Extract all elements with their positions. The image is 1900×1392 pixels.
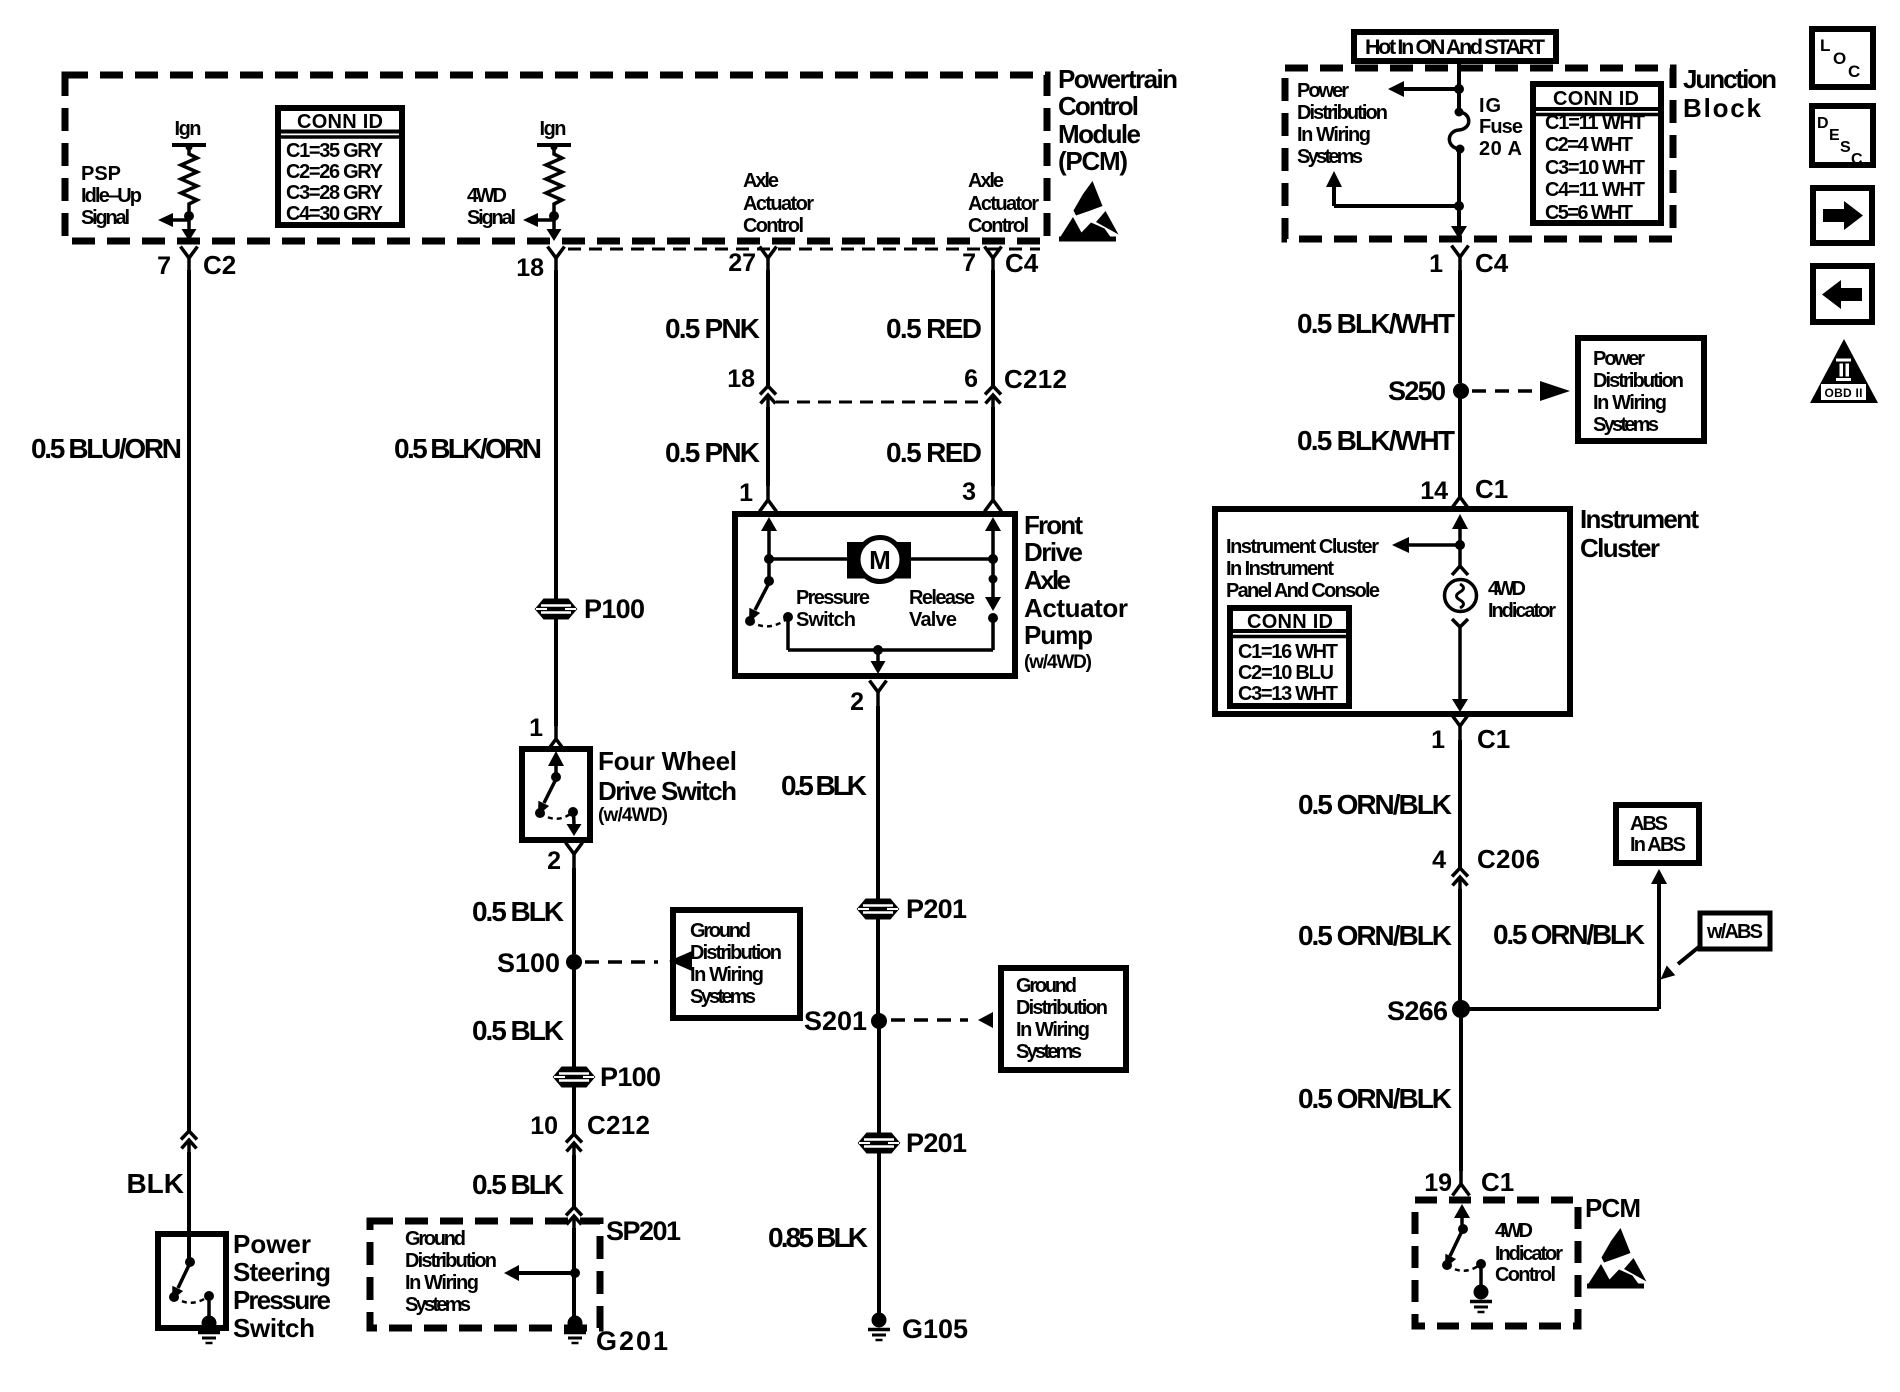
switch dashed throw arc (PSP switch) bbox=[174, 1296, 209, 1303]
PCM dashed box (bottom right) bbox=[1415, 1200, 1578, 1326]
label Axle Actuator Control (pin 27) bbox=[743, 170, 814, 237]
svg-text:SP201: SP201 bbox=[606, 1216, 681, 1246]
svg-text:Steering: Steering bbox=[233, 1257, 331, 1287]
svg-text:0.5 ORN/BLK: 0.5 ORN/BLK bbox=[1298, 789, 1452, 820]
label IG Fuse 20 A bbox=[1479, 95, 1523, 160]
label Front Drive Axle Actuator Pump (w/4WD) bbox=[1024, 510, 1128, 673]
svg-text:Ign: Ign bbox=[175, 118, 202, 140]
switch dashed throw arc (FWD switch) bbox=[540, 812, 573, 819]
wire 0.5 ORN/BLK to S266 bbox=[1458, 889, 1462, 1001]
svg-text:S100: S100 bbox=[497, 948, 560, 978]
svg-text:Control: Control bbox=[1495, 1264, 1556, 1286]
svg-text:Actuator: Actuator bbox=[968, 193, 1039, 215]
svg-text:0.5 RED: 0.5 RED bbox=[886, 437, 982, 468]
wire 0.5 BLK to SP201 bbox=[572, 1155, 576, 1207]
svg-text:4WD: 4WD bbox=[467, 185, 507, 207]
svg-text:M: M bbox=[869, 545, 891, 575]
arrow down to pin 1 C4 bbox=[1451, 226, 1467, 239]
wire 0.5 BLK/ORN from PCM pin 18 down bbox=[554, 270, 558, 600]
CONN ID table (instrument cluster) bbox=[1230, 608, 1349, 706]
svg-text:0.5 RED: 0.5 RED bbox=[886, 313, 982, 344]
svg-text:4WD: 4WD bbox=[1488, 578, 1526, 600]
svg-text:CONN ID: CONN ID bbox=[297, 111, 383, 133]
connector pin 18 (PCM) bbox=[548, 247, 565, 273]
ESD sensitivity symbol (PCM bottom) bbox=[1587, 1228, 1647, 1289]
svg-text:CONN ID: CONN ID bbox=[1553, 88, 1639, 110]
motor M (pump) bbox=[847, 542, 911, 579]
svg-text:Pump: Pump bbox=[1024, 620, 1093, 650]
label Four Wheel Drive Switch (w/4WD) bbox=[598, 746, 737, 826]
pressure switch arm bbox=[755, 583, 769, 610]
svg-text:1: 1 bbox=[1429, 250, 1443, 278]
dashed reference line to Ground Distribution (S100) bbox=[585, 960, 658, 964]
Junction Block dashed box bbox=[1285, 68, 1673, 239]
connector pin 14 C1 (instrument cluster) bbox=[1452, 483, 1469, 509]
switch dashed throw arc (4WD indicator control) bbox=[1447, 1264, 1481, 1271]
label Instrument Cluster (outside) bbox=[1580, 504, 1699, 563]
svg-text:C3=28 GRY: C3=28 GRY bbox=[286, 182, 384, 204]
svg-text:Power: Power bbox=[1297, 80, 1349, 102]
svg-text:19: 19 bbox=[1424, 1169, 1452, 1197]
resistor PSP idle-up (pull-up to Ign) bbox=[158, 144, 206, 242]
svg-text:C212: C212 bbox=[587, 1110, 650, 1140]
svg-text:0.5 ORN/BLK: 0.5 ORN/BLK bbox=[1298, 1083, 1452, 1114]
svg-text:0.5 BLK: 0.5 BLK bbox=[472, 1169, 564, 1200]
svg-text:C4: C4 bbox=[1475, 248, 1509, 278]
svg-text:Four Wheel: Four Wheel bbox=[598, 746, 737, 776]
connector pin 3 (pump) bbox=[985, 486, 1002, 512]
svg-text:Control: Control bbox=[968, 215, 1029, 237]
connector pin 19 C1 (PCM) bbox=[1453, 1170, 1470, 1196]
svg-text:C2: C2 bbox=[203, 250, 236, 280]
svg-text:C1=16 WHT: C1=16 WHT bbox=[1238, 641, 1338, 663]
svg-text:L: L bbox=[1820, 36, 1830, 55]
svg-text:Pressure: Pressure bbox=[796, 587, 870, 609]
svg-text:Axle: Axle bbox=[1024, 565, 1071, 595]
pass-through grommet P100 (second) bbox=[554, 1068, 594, 1087]
svg-text:Distribution: Distribution bbox=[1593, 370, 1684, 392]
svg-text:Valve: Valve bbox=[909, 609, 957, 631]
svg-text:0.5 BLK/ORN: 0.5 BLK/ORN bbox=[394, 433, 542, 464]
wire BLK to Power Steering Pressure Switch bbox=[187, 1152, 191, 1261]
svg-text:Systems: Systems bbox=[405, 1294, 471, 1316]
ground stud (PSP switch) bbox=[198, 1316, 220, 1344]
svg-text:P201: P201 bbox=[906, 1128, 967, 1158]
wire lamp to cluster pin 1 bbox=[1458, 627, 1462, 701]
switch arm arrow up (FWD switch) bbox=[548, 751, 564, 766]
label Instrument Cluster In Instrument Panel And Console bbox=[1226, 536, 1380, 602]
wire from Hot box into junction block bbox=[1457, 61, 1461, 112]
connector 6 C212 bbox=[985, 386, 1001, 407]
wire to splice S201 bbox=[876, 918, 880, 1014]
svg-text:Control: Control bbox=[1058, 91, 1139, 121]
Power Distribution In Wiring Systems box (S250) bbox=[1578, 338, 1704, 441]
reference arrow left (power distribution feed) bbox=[1404, 87, 1459, 91]
svg-text:C: C bbox=[1851, 151, 1863, 168]
connector pin 1 C1 (below cluster) bbox=[1452, 715, 1469, 741]
dashed connector line C212 bbox=[776, 401, 985, 404]
svg-text:Indicator: Indicator bbox=[1495, 1243, 1563, 1265]
Hot In ON And START box bbox=[1354, 32, 1556, 61]
ESD sensitivity symbol (PCM) bbox=[1059, 181, 1119, 242]
svg-text:Systems: Systems bbox=[1593, 414, 1659, 436]
svg-text:In Wiring: In Wiring bbox=[1016, 1019, 1090, 1041]
svg-text:Power: Power bbox=[1593, 348, 1645, 370]
svg-text:Control: Control bbox=[743, 215, 804, 237]
svg-text:Ground: Ground bbox=[1016, 975, 1077, 997]
wire S201 to P201 bbox=[877, 1021, 881, 1133]
connector 18 C212 bbox=[760, 386, 776, 407]
ground G105 bbox=[868, 1313, 890, 1341]
svg-text:IG: IG bbox=[1479, 95, 1501, 117]
Ground Distribution In Wiring Systems box (S100) bbox=[673, 910, 800, 1018]
svg-text:P201: P201 bbox=[906, 894, 967, 924]
reference arrow inside SP201 box bbox=[519, 1271, 575, 1275]
svg-text:S: S bbox=[1840, 139, 1851, 156]
pressure switch fixed contact bbox=[745, 616, 755, 626]
svg-text:C2=4 WHT: C2=4 WHT bbox=[1545, 134, 1633, 156]
node feed junction bbox=[1454, 84, 1464, 94]
svg-text:S250: S250 bbox=[1388, 376, 1446, 406]
label Release Valve bbox=[909, 587, 975, 631]
label 4WD Indicator Control bbox=[1495, 1220, 1563, 1286]
svg-text:0.5 BLK/WHT: 0.5 BLK/WHT bbox=[1297, 425, 1455, 456]
svg-text:C1=35 GRY: C1=35 GRY bbox=[286, 140, 384, 162]
svg-text:CONN ID: CONN ID bbox=[1247, 611, 1333, 633]
Power Steering Pressure Switch box bbox=[158, 1234, 226, 1328]
connector pin 1 (pump) bbox=[760, 486, 777, 512]
svg-text:1: 1 bbox=[1431, 726, 1445, 754]
Four Wheel Drive Switch box bbox=[522, 749, 590, 840]
svg-text:C212: C212 bbox=[1004, 364, 1067, 394]
svg-text:Systems: Systems bbox=[1297, 146, 1363, 168]
svg-text:0.5 PNK: 0.5 PNK bbox=[665, 437, 760, 468]
svg-text:C4: C4 bbox=[1005, 248, 1039, 278]
LOC legend icon bbox=[1812, 29, 1873, 87]
svg-text:In Instrument: In Instrument bbox=[1226, 558, 1334, 580]
switch contact pivot (PSP switch) bbox=[185, 1257, 195, 1267]
switch arm (4WD indicator control) bbox=[1450, 1231, 1462, 1256]
label Axle Actuator Control (pin 7 C4) bbox=[968, 170, 1039, 237]
wire 0.5 BLK/WHT upper bbox=[1458, 270, 1462, 383]
svg-text:Ign: Ign bbox=[540, 118, 567, 140]
svg-text:Drive Switch: Drive Switch bbox=[598, 776, 737, 806]
label PSP Idle-Up Signal bbox=[81, 163, 142, 229]
svg-text:Distribution: Distribution bbox=[1016, 997, 1108, 1019]
svg-text:OBD II: OBD II bbox=[1825, 386, 1863, 400]
svg-text:0.85 BLK: 0.85 BLK bbox=[768, 1222, 868, 1253]
wire 0.5 ORN/BLK first bbox=[1458, 740, 1462, 868]
svg-text:ABS: ABS bbox=[1630, 813, 1668, 835]
splice S201 bbox=[871, 1013, 887, 1029]
svg-text:Signal: Signal bbox=[81, 207, 130, 229]
svg-text:Block: Block bbox=[1683, 93, 1762, 123]
cluster feed arrow up bbox=[1452, 514, 1468, 529]
Ground Distribution In Wiring Systems box (S201) bbox=[1001, 968, 1126, 1070]
svg-text:(w/4WD): (w/4WD) bbox=[598, 805, 668, 826]
svg-text:w/ABS: w/ABS bbox=[1706, 921, 1763, 943]
splice S266 bbox=[1452, 1000, 1470, 1018]
svg-text:1: 1 bbox=[529, 714, 543, 742]
reference arrow left (instrument cluster feed) bbox=[1409, 543, 1460, 547]
svg-text:18: 18 bbox=[727, 365, 755, 393]
svg-text:G105: G105 bbox=[902, 1314, 968, 1344]
svg-text:2: 2 bbox=[850, 688, 864, 716]
svg-text:P100: P100 bbox=[584, 594, 645, 624]
svg-text:Junction: Junction bbox=[1683, 64, 1777, 94]
ground G201 bbox=[564, 1316, 586, 1344]
svg-text:C3=10 WHT: C3=10 WHT bbox=[1545, 157, 1645, 179]
wire 0.85 BLK to G105 bbox=[877, 1152, 881, 1314]
wire 0.5 RED to pump pin 3 bbox=[991, 407, 995, 486]
svg-text:0.5 BLU/ORN: 0.5 BLU/ORN bbox=[31, 433, 182, 464]
label 4WD Indicator bbox=[1488, 578, 1556, 622]
svg-text:S266: S266 bbox=[1387, 996, 1448, 1026]
connector pin 1 C4 (junction block) bbox=[1452, 246, 1469, 272]
svg-text:D: D bbox=[1817, 115, 1829, 132]
wire 0.5 RED from PCM pin 7 C4 bbox=[991, 270, 995, 386]
svg-text:Idle–Up: Idle–Up bbox=[81, 185, 142, 207]
switch contact to ground (4WD indicator control) bbox=[1476, 1259, 1486, 1269]
label Powertrain Control Module (PCM) bbox=[1058, 64, 1178, 176]
svg-text:(PCM): (PCM) bbox=[1058, 146, 1128, 176]
label Power Distribution In Wiring Systems (junction block) bbox=[1297, 80, 1388, 168]
wire junction to motor bbox=[769, 557, 849, 561]
svg-text:Switch: Switch bbox=[233, 1313, 315, 1343]
4WD Indicator lamp bbox=[1445, 580, 1477, 612]
Ground Distribution dashed box (SP201) bbox=[370, 1221, 600, 1328]
svg-text:Release: Release bbox=[909, 587, 975, 609]
resistor 4WD signal (pull-up to Ign) bbox=[523, 144, 571, 242]
Front Drive Axle Actuator Pump box bbox=[735, 514, 1015, 676]
dashed reference line to Ground Distribution (S201) bbox=[891, 1018, 968, 1022]
svg-text:7: 7 bbox=[157, 252, 171, 280]
label Pressure Switch bbox=[796, 587, 870, 631]
svg-text:BLK: BLK bbox=[126, 1168, 184, 1199]
svg-text:Distribution: Distribution bbox=[690, 942, 782, 964]
right arrow legend icon bbox=[1813, 188, 1872, 243]
reference arrow up-left (power distribution feed 2) bbox=[1334, 204, 1459, 208]
svg-text:In Wiring: In Wiring bbox=[405, 1272, 479, 1294]
pump pin 1 internal arrow bbox=[761, 517, 777, 531]
svg-text:Front: Front bbox=[1024, 510, 1083, 540]
svg-text:2: 2 bbox=[547, 847, 561, 875]
svg-text:C4=30 GRY: C4=30 GRY bbox=[286, 203, 384, 225]
svg-text:Powertrain: Powertrain bbox=[1058, 64, 1178, 94]
svg-text:Cluster: Cluster bbox=[1580, 533, 1660, 563]
svg-text:Actuator: Actuator bbox=[1024, 593, 1128, 623]
wire 0.5 BLK below S100 bbox=[572, 962, 576, 1068]
wire motor to right junction bbox=[911, 557, 993, 561]
svg-text:0.5 PNK: 0.5 PNK bbox=[665, 313, 760, 344]
wire 0.5 BLK from FWD switch pin 2 bbox=[572, 868, 576, 954]
svg-text:10: 10 bbox=[530, 1112, 558, 1140]
svg-text:C: C bbox=[1848, 62, 1860, 81]
svg-text:18: 18 bbox=[516, 254, 544, 282]
svg-text:Distribution: Distribution bbox=[405, 1250, 497, 1272]
pump bottom bus wire bbox=[788, 648, 993, 652]
svg-text:0.5 BLK: 0.5 BLK bbox=[472, 896, 564, 927]
pump pin 3 internal arrow bbox=[985, 517, 1001, 531]
svg-text:Instrument: Instrument bbox=[1580, 504, 1699, 534]
svg-text:Hot In ON And START: Hot In ON And START bbox=[1365, 35, 1545, 59]
svg-text:C1: C1 bbox=[1477, 724, 1510, 754]
splice S250 bbox=[1453, 383, 1469, 399]
svg-text:Axle: Axle bbox=[743, 170, 779, 192]
pass-through grommet P201 (first) bbox=[858, 900, 898, 919]
svg-text:Ground: Ground bbox=[690, 920, 751, 942]
switch arm (PSP switch) bbox=[178, 1263, 190, 1288]
PCM (Powertrain Control Module) dashed box bbox=[65, 75, 1047, 241]
node pump right junction bbox=[988, 554, 998, 564]
svg-text:P100: P100 bbox=[600, 1062, 661, 1092]
label Power Steering Pressure Switch bbox=[233, 1229, 331, 1343]
wire 0.5 BLK from pump pin 2 bbox=[876, 706, 880, 899]
svg-text:4WD: 4WD bbox=[1495, 1220, 1533, 1242]
connector 4 C206 bbox=[1452, 868, 1468, 889]
svg-text:Panel And Console: Panel And Console bbox=[1226, 580, 1380, 602]
svg-text:C5=6 WHT: C5=6 WHT bbox=[1545, 202, 1633, 224]
svg-text:Fuse: Fuse bbox=[1479, 116, 1523, 138]
svg-text:C4=11 WHT: C4=11 WHT bbox=[1545, 179, 1645, 201]
svg-text:Systems: Systems bbox=[690, 986, 756, 1008]
svg-text:Indicator: Indicator bbox=[1488, 600, 1556, 622]
svg-text:In ABS: In ABS bbox=[1630, 834, 1686, 856]
svg-text:In Wiring: In Wiring bbox=[1297, 124, 1371, 146]
svg-text:27: 27 bbox=[728, 249, 756, 277]
switch fixed contact left (PSP switch) bbox=[169, 1292, 179, 1302]
node lower feed junction bbox=[1454, 201, 1464, 211]
wire 0.5 PNK from PCM pin 27 bbox=[766, 270, 770, 386]
fuse IG Fuse 20 A bbox=[1455, 108, 1464, 117]
svg-text:PCM: PCM bbox=[1585, 1193, 1641, 1223]
splice SP201 connector break bbox=[566, 1207, 582, 1228]
svg-text:C1=11 WHT: C1=11 WHT bbox=[1545, 112, 1645, 134]
connector pin 1 (Four Wheel Drive Switch) bbox=[548, 725, 565, 751]
wire 0.5 PNK to pump pin 1 bbox=[766, 407, 770, 486]
wire 0.5 BLU/ORN from PCM pin 7 C2 down bbox=[187, 270, 191, 1131]
svg-text:0.5 ORN/BLK: 0.5 ORN/BLK bbox=[1493, 919, 1645, 950]
svg-text:0.5 BLK: 0.5 BLK bbox=[781, 770, 867, 801]
wire to Four Wheel Drive Switch pin 1 bbox=[554, 618, 558, 726]
lamp socket upper flare bbox=[1452, 566, 1468, 575]
svg-text:Instrument Cluster: Instrument Cluster bbox=[1226, 536, 1379, 558]
svg-text:O: O bbox=[1833, 49, 1846, 68]
svg-text:C1: C1 bbox=[1481, 1167, 1514, 1197]
svg-text:C2=10 BLU: C2=10 BLU bbox=[1238, 662, 1334, 684]
dashed reference arrow to Power Distribution (S250) bbox=[1472, 389, 1536, 393]
svg-text:Ground: Ground bbox=[405, 1228, 466, 1250]
switch contact right (FWD switch) bbox=[568, 807, 578, 817]
CONN ID table (PCM) bbox=[278, 108, 402, 225]
node cluster junction bbox=[1455, 540, 1465, 550]
switch arm (FWD switch) bbox=[544, 779, 556, 803]
4WD indicator control switch arrow bbox=[1454, 1204, 1470, 1218]
ground stud (4WD indicator control) bbox=[1470, 1285, 1492, 1313]
left arrow legend icon bbox=[1813, 266, 1872, 322]
pump pin 2 internal arrow bbox=[876, 650, 880, 663]
svg-text:Axle: Axle bbox=[968, 170, 1004, 192]
Instrument Cluster box bbox=[1215, 509, 1570, 714]
svg-text:C206: C206 bbox=[1477, 844, 1540, 874]
pressure switch output contact bbox=[783, 612, 793, 622]
in-line connector break (BLK wire) bbox=[181, 1131, 197, 1152]
svg-text:(w/4WD): (w/4WD) bbox=[1024, 652, 1092, 673]
svg-text:C3=13 WHT: C3=13 WHT bbox=[1238, 683, 1338, 705]
svg-text:Systems: Systems bbox=[1016, 1041, 1082, 1063]
svg-text:PSP: PSP bbox=[81, 163, 121, 185]
lamp socket lower flare bbox=[1452, 619, 1468, 627]
svg-text:C1: C1 bbox=[1475, 474, 1508, 504]
CONN ID table (junction block) bbox=[1533, 84, 1661, 224]
OBD II legend icon bbox=[1810, 339, 1878, 403]
wire to connector C212 pin 10 bbox=[572, 1086, 576, 1134]
ABS In ABS box bbox=[1616, 805, 1699, 863]
pressure switch dashed throw arc bbox=[750, 618, 788, 626]
wire 0.5 ORN/BLK to PCM pin 19 bbox=[1459, 1009, 1463, 1171]
svg-text:Actuator: Actuator bbox=[743, 193, 814, 215]
node pump left junction bbox=[764, 554, 774, 564]
label 4WD Signal bbox=[467, 185, 516, 229]
label Junction Block bbox=[1683, 64, 1777, 123]
svg-text:0.5 ORN/BLK: 0.5 ORN/BLK bbox=[1298, 920, 1452, 951]
svg-text:Distribution: Distribution bbox=[1297, 102, 1388, 124]
wire w/ABS branch to ABS bbox=[1461, 1007, 1659, 1011]
svg-text:C2=26 GRY: C2=26 GRY bbox=[286, 161, 384, 183]
pass-through grommet P100 bbox=[536, 600, 576, 619]
w/ABS pointer arrow bbox=[1678, 946, 1700, 964]
svg-text:20 A: 20 A bbox=[1479, 138, 1522, 160]
svg-text:14: 14 bbox=[1420, 477, 1448, 505]
wire SP201 to G201 bbox=[572, 1228, 576, 1316]
svg-text:E: E bbox=[1829, 127, 1840, 144]
svg-text:3: 3 bbox=[962, 478, 976, 506]
pass-through grommet P201 (second) bbox=[859, 1134, 899, 1153]
DESC legend icon bbox=[1812, 106, 1873, 168]
svg-text:1: 1 bbox=[739, 479, 753, 507]
switch contact right to ground (PSP switch) bbox=[204, 1291, 214, 1301]
connector 10 C212 bbox=[566, 1134, 582, 1155]
switch fixed contact (4WD indicator control) bbox=[1442, 1260, 1452, 1270]
svg-text:4: 4 bbox=[1432, 846, 1446, 874]
connector pin 7 C4 (PCM) bbox=[985, 247, 1002, 273]
svg-text:0.5 BLK: 0.5 BLK bbox=[472, 1015, 564, 1046]
svg-text:In Wiring: In Wiring bbox=[690, 964, 764, 986]
svg-text:Pressure: Pressure bbox=[233, 1285, 331, 1315]
dashed connector line C4 bbox=[568, 248, 1040, 251]
switch fixed contact left (FWD switch) bbox=[535, 808, 545, 818]
svg-text:0.5 BLK/WHT: 0.5 BLK/WHT bbox=[1297, 308, 1455, 339]
wire fuse down bbox=[1457, 149, 1461, 227]
node pump bottom junction bbox=[873, 645, 883, 655]
svg-text:Drive: Drive bbox=[1024, 537, 1083, 567]
connector pin 2 (pump) bbox=[870, 681, 887, 707]
connector pin 7 C2 (PCM) bbox=[181, 247, 198, 273]
svg-text:Power: Power bbox=[233, 1229, 311, 1259]
wire 0.5 BLK/WHT lower bbox=[1458, 391, 1462, 497]
svg-text:Module: Module bbox=[1058, 119, 1141, 149]
svg-text:Signal: Signal bbox=[467, 207, 516, 229]
connector pin 27 (PCM) bbox=[760, 247, 777, 273]
connector pin 2 (Four Wheel Drive Switch) bbox=[566, 843, 583, 869]
svg-text:S201: S201 bbox=[804, 1006, 867, 1036]
splice S100 bbox=[566, 954, 582, 970]
svg-text:G201: G201 bbox=[596, 1326, 668, 1356]
svg-text:7: 7 bbox=[962, 249, 976, 277]
w/ABS tag box bbox=[1700, 913, 1770, 949]
svg-text:Switch: Switch bbox=[796, 609, 856, 631]
release valve solenoid bbox=[991, 559, 995, 597]
